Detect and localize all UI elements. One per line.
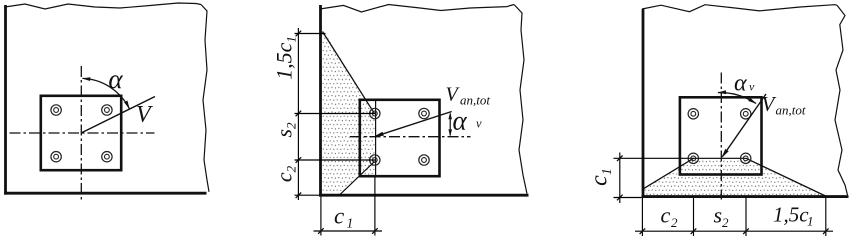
- svg-text:V: V: [136, 102, 153, 128]
- panel 1 angle alpha arc arrowhead left: [82, 77, 91, 81]
- panel 2 left dimension ticks: [296, 31, 302, 37]
- panel 3 angle alpha_v arc: [718, 93, 756, 104]
- panel 1 concrete member outline: bottom fixed edge: [4, 192, 206, 195]
- svg-text:α: α: [734, 71, 747, 97]
- panel 2 dimension extension line at 1.5c1 top: [295, 33, 326, 35]
- panel 3 alpha_v arc arrowhead right: [748, 98, 756, 104]
- panel 2 dimension extension line at bottom edge: [295, 194, 320, 196]
- svg-text:s: s: [714, 203, 723, 228]
- svg-text:v: v: [476, 117, 482, 131]
- panel 1 vertical centerline: [80, 66, 82, 200]
- panel 3 concrete breakout stippled area: [643, 158, 825, 195]
- panel 2 concrete member outline: bottom edge: [319, 194, 528, 197]
- panel 1 anchor plate: [41, 96, 121, 170]
- panel 2 breakout crack slant line: [323, 32, 375, 114]
- panel 3 breakout right slant crack line: [746, 158, 826, 196]
- svg-text:c: c: [334, 204, 344, 229]
- panel 1 anchor bolt bottom-right: [102, 152, 112, 162]
- panel 1 anchor bolt bottom-left: [51, 152, 61, 162]
- panel 1 anchor bolt top-left: [51, 105, 61, 115]
- svg-text:c: c: [661, 203, 671, 228]
- panel 1 angle alpha arc arrowhead right: [124, 101, 130, 109]
- panel 2 concrete break line: right wavy edge: [514, 5, 527, 194]
- panel 1 shear force V line: [81, 97, 155, 133]
- svg-text:1: 1: [347, 216, 354, 231]
- svg-text:v: v: [749, 80, 755, 94]
- panel 3 concrete member outline: bottom free edge: [642, 195, 849, 198]
- panel 2 bottom dimension line c1: [314, 230, 383, 232]
- panel 2 resultant force V_an,tot line: [376, 112, 452, 137]
- svg-text:an,tot: an,tot: [776, 103, 806, 118]
- panel 2 concrete break line: top wavy edge: [320, 5, 514, 13]
- svg-text:α: α: [108, 64, 123, 94]
- panel 3 concrete member outline: left edge: [642, 9, 645, 198]
- panel 2 concrete breakout stippled area: [322, 32, 376, 194]
- panel 3 anchor bolt top-right: [741, 109, 751, 119]
- panel 3 breakout left slant crack line: [643, 158, 693, 189]
- panel 3 concrete break line: right wavy edge: [835, 5, 848, 195]
- panel 2 anchor bolt bottom-right: [419, 155, 429, 165]
- panel 3 anchor plate: [680, 97, 762, 174]
- panel 1 concrete break line: right wavy edge: [201, 5, 209, 192]
- panel 3 bottom dimension extension lines: [641, 198, 643, 236]
- panel 2 bottom dimension extension line left: [320, 197, 322, 236]
- panel 2 dimension extension line at bottom bolt row: [295, 159, 376, 161]
- panel 2 anchor plate: [360, 100, 440, 176]
- panel 3 concrete break line: top wavy edge: [642, 5, 837, 12]
- panel 2 breakout lower 45deg crack line: [340, 162, 375, 195]
- panel 2 V_an,tot arrowhead: [374, 132, 384, 137]
- panel 1 concrete break line: top wavy edge: [5, 3, 201, 9]
- panel 1 angle alpha arc: [83, 78, 130, 108]
- panel 2 concrete member outline: left free edge: [319, 5, 322, 197]
- panel 3 anchor bolt top-left: [688, 109, 698, 119]
- panel 3 anchor bolt bottom-right: [741, 153, 751, 163]
- panel 2 anchor bolt top-right: [419, 108, 429, 118]
- panel 3 V_an,tot arrowhead: [721, 149, 728, 158]
- panel 3 alpha_v arc arrowhead left: [718, 90, 727, 94]
- panel 2 dimension extension line at top bolt row: [295, 113, 376, 115]
- panel 2 angle alpha_v double arrow: [449, 114, 451, 136]
- svg-text:2: 2: [722, 215, 729, 230]
- panel 3 dimension extension at bottom edge: [614, 197, 642, 199]
- panel 2 bottom dimension extension line right: [374, 177, 376, 236]
- panel 3 vertical centerline: [720, 73, 722, 200]
- panel 2 anchor bolt bottom-left: [370, 155, 380, 165]
- panel 3 resultant force V_an,tot line: [723, 94, 767, 157]
- svg-text:V: V: [762, 92, 777, 116]
- panel 1 concrete member outline: left fixed edge: [4, 5, 7, 195]
- panel 3 anchor bolt bottom-left: [688, 153, 698, 163]
- panel 2 anchor bolt top-left: [370, 108, 380, 118]
- panel 1 horizontal centerline: [10, 132, 155, 134]
- svg-text:2: 2: [671, 215, 678, 230]
- svg-text:1,5c: 1,5c: [773, 203, 809, 227]
- panel 3 left dimension line c1: [619, 153, 621, 204]
- svg-text:α: α: [453, 106, 468, 136]
- panel 2 horizontal centerline: [350, 136, 471, 138]
- panel 1 anchor bolt top-right: [102, 105, 112, 115]
- svg-text:1,5c1: 1,5c1: [272, 36, 299, 80]
- svg-text:1: 1: [807, 214, 814, 229]
- panel 2 left dimension line: [297, 28, 299, 200]
- panel 3 anchor row horizontal line: [614, 157, 747, 159]
- panel 2 breakout vertical crack plane line: [375, 100, 377, 176]
- panel 3 bottom dimension line: [635, 230, 833, 232]
